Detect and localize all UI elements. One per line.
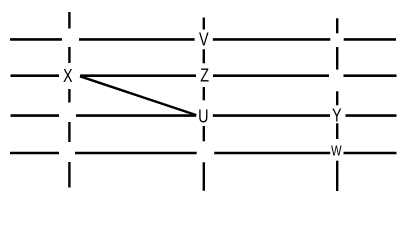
wire col3 dash 2: [336, 47, 338, 70]
wire row1 segment b: [79, 38, 195, 41]
wire row1 segment d: [344, 38, 396, 41]
svg-text:X: X: [63, 65, 73, 86]
wire row4 segment d: [344, 152, 397, 155]
wire col3 dash 1: [336, 18, 338, 33]
wire row3 segment a: [11, 114, 60, 117]
svg-text:Z: Z: [200, 65, 209, 86]
wire col1 dash 1: [68, 12, 70, 29]
svg-text:Y: Y: [332, 105, 342, 126]
wire col2 dash 1: [203, 18, 205, 30]
wire col2 dash 4: [203, 126, 205, 141]
wire col1 dash 3: [68, 89, 70, 103]
wire col1 dash 5: [68, 162, 70, 188]
wire col1 dash 4: [68, 122, 70, 142]
wire col3 dash 5: [336, 161, 338, 191]
wire col2 dash 5: [203, 162, 205, 190]
wire row4 segment b: [75, 152, 197, 155]
wire col2 dash 2: [203, 49, 205, 63]
svg-text:W: W: [331, 142, 342, 159]
svg-text:U: U: [198, 106, 208, 127]
wire row4 segment a: [10, 152, 59, 155]
wire row3 segment d: [346, 114, 397, 117]
wire col1 dash 2: [68, 47, 70, 63]
wire row1 segment a: [10, 38, 62, 41]
wire col3 dash 3: [336, 91, 338, 105]
wire row2 segment c: [213, 74, 329, 77]
wire row4 segment c: [214, 152, 330, 155]
wire col3 dash 4: [336, 123, 338, 139]
wire row1 segment c: [213, 38, 330, 41]
wire diagonal X to U: [80, 76, 196, 115]
wire row2 segment a: [11, 74, 60, 77]
wire row3 segment b: [76, 114, 196, 117]
wire row2 segment b: [80, 74, 196, 77]
wire row3 segment c: [213, 114, 330, 117]
wire row2 segment d: [344, 74, 397, 77]
wire col2 dash 3: [203, 87, 205, 100]
svg-text:V: V: [199, 29, 209, 50]
